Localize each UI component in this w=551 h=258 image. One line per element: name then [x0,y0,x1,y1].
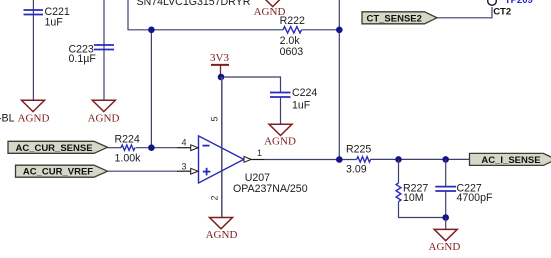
label R227 value [403,182,428,204]
pin marker 3 [191,168,198,174]
wire C221 vertical lead [32,0,34,100]
svg-text:R222: R222 [280,15,305,27]
op-amp minus input mark [203,145,210,147]
svg-text:OPA237NA/250: OPA237NA/250 [233,183,308,195]
net label CT_SENSE2 [362,12,437,24]
svg-text:AGND: AGND [429,241,461,253]
svg-text:R224: R224 [115,134,140,146]
wire C223 vertical lead [103,0,105,100]
wire R224 to op-amp pin 4 [136,147,178,149]
label C223 value [69,44,97,65]
svg-text:3V3: 3V3 [210,52,229,64]
capacitor C224 [270,93,291,98]
wire CT_SENSE2 to test point [437,7,492,18]
net label AC_CUR_SENSE [8,141,108,154]
wire AC_CUR_SENSE to R224 [108,147,122,149]
ground AGND (op-amp pin 2) [206,218,238,242]
svg-text:CT_SENSE2: CT_SENSE2 [366,13,421,24]
ground AGND (under C221) [18,100,50,124]
node junction bottom RC [442,214,449,221]
label R222 value [280,15,305,58]
resistor R225 [357,157,371,162]
capacitor C227 [435,187,456,191]
test point CT2 circle [488,0,497,5]
wire op-amp power pins 5/2 vertical [221,77,223,218]
svg-text:TP209: TP209 [505,0,533,6]
svg-text:AC_I_SENSE: AC_I_SENSE [481,155,540,166]
svg-text:0.1µF: 0.1µF [69,53,97,65]
node junction bus/right vertical [336,27,343,34]
ground AGND (top, by chip) [254,0,286,18]
wire R227 bottom lead [399,202,446,218]
svg-text:5: 5 [210,116,220,121]
node junction output/right vertical [336,156,343,163]
node junction R227 top [395,156,402,163]
node junction feedback/pin4 [148,144,155,151]
ground AGND (under C224) [264,124,296,147]
wire AGND stem bottom right [445,218,447,230]
resistor R222 [283,27,302,33]
wire 3V3 rail to C224 [221,77,281,93]
pin marker 1 (output) [244,157,251,163]
svg-text:0603: 0603 [280,46,304,58]
svg-text:AGND: AGND [264,135,296,147]
wire C224 bottom lead [280,97,282,124]
wire op-amp output to tag [251,159,264,161]
power 3V3 [210,52,229,77]
svg-text:C224: C224 [292,87,317,99]
node junction C227 top [442,156,449,163]
pin 3 stub [177,170,191,172]
svg-text:AGND: AGND [206,229,238,241]
svg-text:AC_CUR_SENSE: AC_CUR_SENSE [15,143,92,154]
wire right vertical (top edge to output node) [338,0,340,160]
svg-text:10M: 10M [403,192,424,204]
svg-text:2: 2 [210,195,220,200]
node junction at 3V3 [218,74,225,81]
svg-text:3: 3 [182,161,187,171]
wire C227 bottom lead [445,191,447,218]
wire R225 to AC_I_SENSE [370,158,469,160]
pin marker 4 [191,145,198,151]
capacitor C223 [94,45,114,50]
svg-text:1uF: 1uF [292,100,311,112]
label C221 value [45,6,70,29]
net label AC_I_SENSE [470,153,551,166]
svg-text:-BL: -BL [0,113,15,125]
wire output to R225 [265,159,357,161]
wire feedback vertical (bus to pin4 node) [150,30,152,148]
op-amp plus input mark [203,168,211,176]
resistor R224 [121,145,135,150]
label C224 value [292,87,317,111]
svg-text:SN74LVC1G3157DRYR: SN74LVC1G3157DRYR [137,0,251,8]
svg-text:4: 4 [182,137,187,147]
svg-text:AC_CUR_VREF: AC_CUR_VREF [23,167,93,178]
svg-text:3.09: 3.09 [346,164,367,176]
wire R227 top lead [398,159,400,183]
svg-text:R225: R225 [346,144,371,156]
net label AC_CUR_VREF [16,165,108,178]
op-amp U207 triangle [199,136,244,183]
svg-text:CT2: CT2 [493,7,511,18]
ground AGND (bottom right) [429,229,461,252]
pin 4 stub [177,147,191,149]
wire top-left bend down to bus [128,0,283,30]
svg-text:1uF: 1uF [45,17,64,29]
svg-text:AGND: AGND [88,113,120,125]
svg-text:1.00k: 1.00k [115,153,142,165]
label U207 OPA237NA/250 [233,172,308,195]
label R225 value [346,144,371,176]
svg-text:1: 1 [257,148,262,158]
wire bus right of R222 [302,29,340,31]
label R224 value [115,134,142,165]
label C227 value [457,182,493,204]
svg-text:4700pF: 4700pF [457,192,493,204]
capacitor C221 [24,10,44,15]
ground AGND (under C223) [88,100,120,124]
wire C227 top lead [445,159,447,186]
svg-text:AGND: AGND [18,113,50,125]
resistor R227 [396,183,401,202]
wire AC_CUR_VREF to op-amp pin 3 [108,170,178,172]
node junction at bus/feedback [148,27,155,34]
